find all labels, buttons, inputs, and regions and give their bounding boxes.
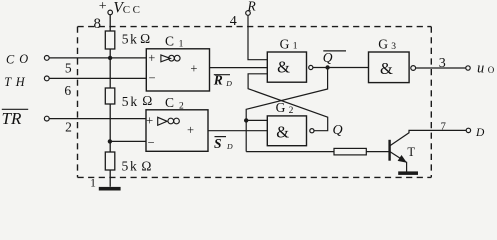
svg-text:3: 3 <box>439 56 446 71</box>
svg-text:7: 7 <box>441 122 446 133</box>
svg-text:T: T <box>4 75 12 89</box>
gate G3 box <box>369 52 410 83</box>
svg-text:C: C <box>123 4 130 16</box>
svg-text:&: & <box>277 58 290 77</box>
label Q-bar <box>323 50 346 65</box>
svg-text:+: + <box>187 123 194 137</box>
IC dashed border box <box>78 27 432 178</box>
C1 comparator symbol <box>161 55 180 62</box>
svg-text:C: C <box>165 33 174 48</box>
svg-text:R: R <box>247 0 257 13</box>
wire: G3 output to pin 3 <box>416 67 466 69</box>
wire: divider node to C2 - input <box>110 140 146 142</box>
terminal TR pin2 <box>44 116 49 121</box>
svg-text:D: D <box>226 142 233 151</box>
svg-text:O: O <box>488 65 495 75</box>
svg-text:5: 5 <box>65 61 72 76</box>
svg-text:2: 2 <box>179 102 184 112</box>
svg-text:1: 1 <box>179 39 184 49</box>
label uO output <box>477 60 495 76</box>
wire: Vcc rail down to ground (divider chain) <box>109 15 111 187</box>
terminal discharge pin7 <box>466 128 470 132</box>
resistor R1 5k <box>105 31 115 49</box>
svg-text:−: − <box>148 71 155 85</box>
svg-text:Ω: Ω <box>140 31 150 46</box>
gate G1 box <box>267 52 306 82</box>
node: divider upper junction <box>108 56 112 60</box>
node: divider lower junction <box>108 139 112 143</box>
terminal CO pin5 <box>44 56 49 61</box>
svg-text:G: G <box>280 37 290 52</box>
terminal Vcc <box>108 10 113 15</box>
terminal R pin4 <box>246 11 251 16</box>
ground: transistor emitter ground bar <box>398 171 418 175</box>
node: Q-bar junction <box>325 65 329 69</box>
svg-text:&: & <box>276 122 289 141</box>
svg-text:+: + <box>99 0 107 14</box>
svg-text:+: + <box>146 114 153 128</box>
svg-text:+: + <box>190 61 197 75</box>
wire: C2 output to G2 input <box>208 130 267 132</box>
ground pin 1 bar <box>99 187 121 191</box>
wire: junction to G2 input 1 <box>246 119 267 121</box>
svg-text:4: 4 <box>230 14 237 29</box>
G3 output bubble <box>411 66 416 71</box>
svg-text:5: 5 <box>122 94 129 109</box>
svg-text:C: C <box>165 95 174 110</box>
svg-text:3: 3 <box>391 42 396 52</box>
wire: TH pin 6 to C1 - input <box>49 77 146 79</box>
svg-text:T: T <box>407 145 415 159</box>
label 5k resistor 3 <box>122 159 152 174</box>
svg-text:Q: Q <box>333 123 343 138</box>
resistor R2 5k <box>105 88 115 104</box>
wire: G1 output to G3 input (Q-bar net) <box>313 67 369 69</box>
svg-text:5: 5 <box>122 159 129 174</box>
node: G2 input junction <box>244 118 248 122</box>
svg-text:D: D <box>225 79 232 88</box>
terminal output pin3 <box>466 66 470 70</box>
svg-text:G: G <box>276 100 286 115</box>
wire: Q-bar cross-couple to G2 input and transistor base <box>246 68 327 152</box>
svg-text:6: 6 <box>64 83 71 98</box>
svg-text:C: C <box>133 4 140 16</box>
resistor R3 5k <box>105 152 115 170</box>
svg-text:1: 1 <box>293 42 298 52</box>
svg-text:TR: TR <box>2 109 22 128</box>
wire: base drive to resistor <box>246 151 334 153</box>
G2 output bubble <box>310 129 314 133</box>
svg-text:1: 1 <box>90 178 96 190</box>
label 5k resistor 1 <box>122 31 150 46</box>
resistor base <box>334 148 366 155</box>
svg-text:D: D <box>475 127 485 139</box>
svg-text:k: k <box>130 32 137 47</box>
svg-text:H: H <box>15 75 26 89</box>
svg-text:G: G <box>378 37 388 52</box>
transistor T base bar <box>388 140 390 161</box>
label S-bar D <box>214 136 233 151</box>
svg-text:k: k <box>130 159 137 174</box>
wire: transistor collector to pin 7 <box>390 130 466 145</box>
terminal TH pin6 <box>44 76 49 81</box>
svg-text:8: 8 <box>93 16 101 32</box>
transistor T emitter <box>390 152 406 162</box>
svg-text:C: C <box>6 52 15 66</box>
svg-text:k: k <box>130 94 137 109</box>
wire: R pin 4 down to G1 input <box>248 15 267 59</box>
label 5k resistor 2 <box>122 93 153 109</box>
svg-text:O: O <box>19 52 28 66</box>
svg-text:+: + <box>148 51 155 65</box>
wire: Q cross-couple G2 output to G1 input <box>248 74 328 131</box>
svg-text:Ω: Ω <box>142 93 152 108</box>
wire: resistor to transistor base <box>366 151 389 153</box>
op-amp C1 comparator box <box>146 49 209 91</box>
svg-text:Ω: Ω <box>141 159 151 174</box>
svg-text:u: u <box>477 60 484 76</box>
gate G2 box <box>267 116 306 146</box>
svg-text:2: 2 <box>289 106 294 116</box>
svg-text:S: S <box>214 136 222 151</box>
svg-text:5: 5 <box>122 32 129 47</box>
svg-text:&: & <box>380 59 393 78</box>
G1 output bubble <box>309 65 313 69</box>
wire: CO pin 5 to C1 + input <box>49 57 146 59</box>
svg-text:2: 2 <box>65 120 72 135</box>
op-amp C2 comparator box <box>146 110 208 152</box>
svg-text:−: − <box>147 136 154 150</box>
svg-text:Q: Q <box>323 50 333 65</box>
label R-bar D <box>213 72 232 88</box>
wire: TR pin 2 to C2 + input <box>49 118 146 120</box>
C2 comparator symbol <box>158 117 180 125</box>
wire: C1 output to G1 input <box>210 67 268 69</box>
